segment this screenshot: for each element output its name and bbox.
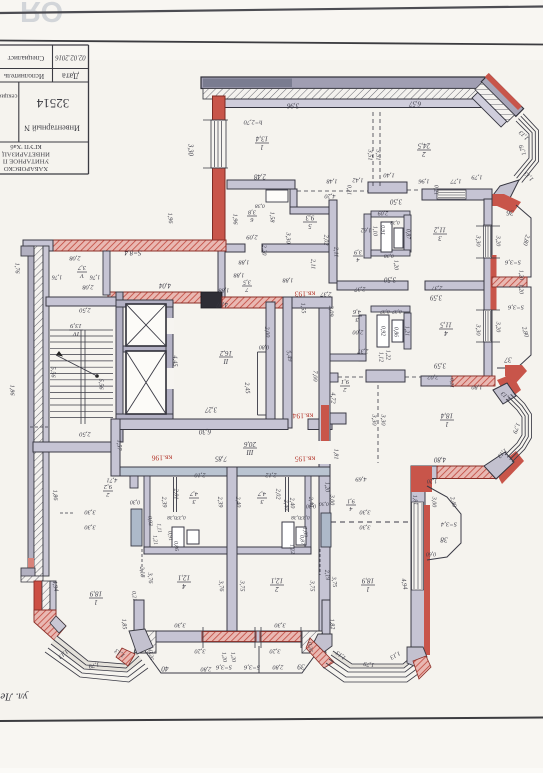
svg-text:ИНВЕТАРИЗАЦ: ИНВЕТАРИЗАЦ [2,150,50,157]
svg-text:1,10: 1,10 [372,226,378,236]
svg-text:Исполнитель: Исполнитель [3,72,44,80]
svg-text:1,81: 1,81 [333,449,340,460]
svg-text:4: 4 [356,256,359,263]
svg-text:1,79: 1,79 [471,174,483,181]
svg-text:24,5: 24,5 [417,142,430,150]
svg-text:37: 37 [504,355,513,363]
svg-text:4,7: 4,7 [257,490,266,497]
svg-text:3,30: 3,30 [285,231,292,244]
svg-text:12,1: 12,1 [178,574,190,582]
svg-text:2,18: 2,18 [138,566,146,578]
svg-text:0,86: 0,86 [172,541,179,551]
svg-text:3: 3 [355,316,359,323]
svg-text:1,96: 1,96 [232,214,239,226]
svg-text:3: 3 [260,498,264,505]
svg-text:3,30: 3,30 [84,509,97,516]
svg-text:3,50: 3,50 [389,197,402,204]
svg-text:0,38: 0,38 [255,203,265,209]
svg-text:2,11: 2,11 [310,259,317,269]
svg-text:6,30: 6,30 [198,427,210,434]
svg-text:1,80: 1,80 [471,384,483,391]
svg-text:4,45: 4,45 [172,355,179,366]
svg-text:3,30: 3,30 [359,509,372,516]
svg-text:2,37: 2,37 [431,285,443,292]
svg-text:0,30: 0,30 [130,499,140,505]
svg-text:2,12: 2,12 [265,472,277,479]
svg-text:3,27: 3,27 [204,405,217,412]
svg-text:13,9: 13,9 [70,322,82,329]
svg-text:1,20: 1,20 [229,652,236,663]
svg-text:18,9: 18,9 [361,577,374,585]
svg-text:4,80: 4,80 [433,455,445,462]
svg-text:2,37: 2,37 [354,286,366,293]
svg-text:2,10: 2,10 [194,472,206,479]
svg-text:3,75: 3,75 [309,580,316,592]
svg-text:0,37: 0,37 [392,308,402,314]
svg-text:32514: 32514 [36,96,69,111]
svg-text:IV: IV [72,330,80,337]
svg-text:2,40: 2,40 [307,496,315,507]
svg-text:2,50: 2,50 [79,430,91,437]
svg-text:1,96: 1,96 [418,178,430,185]
svg-text:2,08: 2,08 [69,255,81,262]
svg-text:2,00: 2,00 [263,326,271,338]
svg-text:III: III [246,448,255,455]
svg-text:11,5: 11,5 [440,321,452,329]
svg-text:1,42: 1,42 [352,177,364,184]
svg-text:0,21: 0,21 [130,591,137,601]
svg-text:4,69: 4,69 [355,476,367,483]
svg-text:1,48: 1,48 [326,178,338,185]
svg-text:2,00: 2,00 [352,329,364,336]
svg-text:Специалист: Специалист [7,54,44,62]
svg-text:1,21: 1,21 [151,535,158,545]
svg-text:0,91: 0,91 [166,531,173,541]
svg-text:секция: секция [0,93,17,100]
svg-text:1,22: 1,22 [385,350,391,360]
svg-text:2,50: 2,50 [79,306,91,313]
svg-text:S=8,4: S=8,4 [124,248,141,256]
svg-text:кв.195: кв.195 [295,454,316,463]
svg-text:3,20: 3,20 [495,235,501,247]
svg-text:1,85: 1,85 [120,618,128,629]
svg-text:2,45: 2,45 [243,382,251,394]
svg-text:3,30: 3,30 [186,143,193,156]
svg-text:13,4: 13,4 [255,135,268,143]
svg-text:0,92: 0,92 [380,326,386,336]
svg-text:3,30: 3,30 [359,524,372,531]
svg-text:1,20: 1,20 [427,478,437,484]
svg-text:0,80: 0,80 [259,344,269,350]
svg-text:S=3,6: S=3,6 [507,303,524,310]
svg-text:2,40: 2,40 [234,496,242,508]
svg-text:3,51: 3,51 [375,148,382,160]
svg-text:1,21: 1,21 [404,326,410,336]
svg-text:S=3,6: S=3,6 [215,663,232,670]
svg-text:5,56: 5,56 [98,379,105,391]
svg-text:5: 5 [308,222,312,230]
svg-text:16,2: 16,2 [219,349,231,356]
svg-text:18,9: 18,9 [89,590,102,598]
svg-text:кв.193: кв.193 [295,289,316,298]
svg-text:0,21: 0,21 [449,378,455,388]
svg-text:4,04: 4,04 [158,281,170,288]
svg-text:2,09: 2,09 [246,234,258,241]
svg-text:2,09: 2,09 [328,306,335,317]
svg-text:4: 4 [444,329,448,337]
svg-text:3,30: 3,30 [274,622,287,629]
svg-text:4,72: 4,72 [330,392,337,404]
svg-text:1,58: 1,58 [269,212,276,224]
svg-text:3,59: 3,59 [433,361,446,368]
svg-text:1,11: 1,11 [155,523,162,533]
svg-text:2,80: 2,80 [200,666,212,673]
svg-text:3,20: 3,20 [194,648,207,655]
svg-text:1: 1 [445,420,449,428]
svg-text:1,96: 1,96 [166,212,174,224]
svg-text:3,20: 3,20 [495,321,501,333]
svg-text:0,26: 0,26 [306,642,313,652]
svg-text:3,30: 3,30 [475,234,482,247]
svg-text:1,20: 1,20 [393,260,399,270]
svg-text:0,26: 0,26 [147,650,154,660]
svg-text:ул. Ле: ул. Ле [0,690,28,702]
svg-text:1,22: 1,22 [288,544,295,554]
svg-text:3,50: 3,50 [383,275,396,282]
svg-text:3,00: 3,00 [431,496,437,508]
svg-text:1: 1 [94,598,98,606]
svg-text:3,30: 3,30 [174,622,187,629]
svg-text:0,37: 0,37 [380,308,390,314]
svg-text:1,88: 1,88 [238,259,250,266]
svg-text:4: 4 [349,505,352,512]
svg-text:12,1: 12,1 [271,577,283,585]
svg-text:7,00: 7,00 [312,370,319,382]
svg-text:1,57: 1,57 [116,440,123,452]
svg-text:3,59: 3,59 [429,293,442,300]
svg-text:2,11: 2,11 [333,247,340,257]
svg-text:4,71: 4,71 [107,477,118,484]
svg-text:38: 38 [440,535,449,543]
svg-text:2,08: 2,08 [82,284,94,291]
svg-text:3,30: 3,30 [84,524,97,531]
svg-text:1,62: 1,62 [361,227,372,233]
svg-text:1,82: 1,82 [328,618,336,629]
svg-text:3,30: 3,30 [475,323,482,336]
svg-text:Инвентарный N: Инвентарный N [24,124,80,133]
svg-text:2,02: 2,02 [275,489,282,500]
svg-text:3,30: 3,30 [380,413,387,426]
svg-text:3,30: 3,30 [371,413,378,426]
svg-text:0,91: 0,91 [380,225,386,235]
svg-text:кв.196: кв.196 [152,453,173,462]
svg-text:4,7: 4,7 [189,490,198,497]
svg-text:7,85: 7,85 [214,454,226,461]
svg-text:1,40: 1,40 [383,172,395,179]
svg-text:3,7: 3,7 [77,264,87,271]
svg-text:0,38: 0,38 [384,253,394,259]
svg-text:9,3: 9,3 [305,214,314,222]
svg-text:2: 2 [275,585,279,593]
svg-text:0,21: 0,21 [346,185,352,195]
svg-text:1: 1 [366,585,370,593]
svg-text:УНИТАРНОЕ П: УНИТАРНОЕ П [3,158,50,165]
svg-text:2,02: 2,02 [427,374,439,381]
svg-text:5,56: 5,56 [50,367,57,379]
svg-text:1,81: 1,81 [411,495,418,506]
svg-text:0,87: 0,87 [405,229,411,240]
svg-text:0,86: 0,86 [393,327,399,337]
svg-text:2,09: 2,09 [378,210,389,216]
svg-text:0,37: 0,37 [300,514,310,520]
svg-text:0,93: 0,93 [146,516,153,526]
svg-text:1,77: 1,77 [450,178,462,185]
svg-text:1,79: 1,79 [363,660,375,668]
svg-text:2,80: 2,80 [272,664,284,671]
svg-text:3,76: 3,76 [146,571,154,584]
svg-text:3: 3 [438,234,443,242]
svg-text:1,20: 1,20 [518,284,524,294]
svg-text:1,20: 1,20 [518,270,524,280]
svg-text:S=3,6: S=3,6 [504,258,521,265]
svg-text:1,86: 1,86 [9,385,16,397]
svg-text:4: 4 [182,582,186,590]
svg-text:1,88: 1,88 [282,277,294,284]
svg-text:3,76: 3,76 [217,579,225,592]
svg-text:II: II [223,357,229,364]
svg-text:4,20: 4,20 [324,193,336,200]
svg-text:3,96: 3,96 [286,101,299,108]
svg-text:2,37: 2,37 [357,348,369,355]
svg-text:36: 36 [506,208,515,216]
svg-text:2,19: 2,19 [323,570,330,581]
svg-text:1: 1 [260,143,264,151]
svg-text:0,87: 0,87 [298,535,305,545]
svg-text:2,02: 2,02 [323,235,330,246]
svg-text:9,1: 9,1 [347,497,355,504]
svg-text:1,76: 1,76 [90,274,101,280]
svg-text:1,86: 1,86 [51,489,59,501]
svg-text:20,6: 20,6 [243,440,255,447]
svg-text:кв.194: кв.194 [293,411,314,420]
svg-text:1,12: 1,12 [378,352,384,362]
svg-text:02.02.2016: 02.02.2016 [55,53,86,60]
svg-text:2,01: 2,01 [173,489,180,500]
svg-text:11,2: 11,2 [434,226,446,234]
svg-text:2,48: 2,48 [253,172,265,179]
svg-text:h=2,70: h=2,70 [243,119,262,126]
svg-text:2,20: 2,20 [261,245,268,257]
svg-text:Дата: Дата [62,72,79,82]
svg-text:2,39: 2,39 [160,496,168,507]
svg-text:1,20: 1,20 [220,652,227,663]
svg-text:S=3,4: S=3,4 [440,520,457,527]
svg-text:1,76: 1,76 [14,263,21,275]
svg-text:4,07: 4,07 [215,300,227,307]
svg-text:3,9: 3,9 [354,248,363,255]
svg-text:3: 3 [192,498,196,505]
svg-text:3,75: 3,75 [239,580,246,592]
svg-text:0,37: 0,37 [176,514,186,520]
svg-text:1,55: 1,55 [299,302,307,313]
svg-text:0,38: 0,38 [167,514,177,520]
svg-text:1,20: 1,20 [324,482,330,492]
svg-text:2,39: 2,39 [216,496,224,507]
svg-text:39: 39 [297,662,306,670]
svg-text:S=3,6: S=3,6 [243,663,260,670]
svg-text:0,38: 0,38 [291,514,301,520]
svg-text:2,37: 2,37 [320,291,332,298]
svg-text:6,57: 6,57 [408,99,420,106]
svg-text:40: 40 [161,664,169,672]
svg-text:ХАБАРОВСКО: ХАБАРОВСКО [4,165,49,172]
svg-text:18,4: 18,4 [440,412,453,420]
svg-text:4,6: 4,6 [352,308,361,315]
svg-text:9,1: 9,1 [341,378,349,385]
svg-text:1,88: 1,88 [218,287,230,294]
svg-text:3,75: 3,75 [330,576,337,588]
svg-text:0,60: 0,60 [426,551,436,557]
svg-text:3,51: 3,51 [367,148,374,160]
svg-text:1,88: 1,88 [233,272,245,279]
svg-text:3,20: 3,20 [269,648,282,655]
svg-text:1,76: 1,76 [52,274,63,280]
svg-text:0,38: 0,38 [390,219,400,225]
svg-text:0,30: 0,30 [319,501,329,507]
svg-text:2,40: 2,40 [282,499,290,511]
svg-text:КГУП 'Хаб: КГУП 'Хаб [10,143,42,150]
svg-text:0,21: 0,21 [433,185,439,195]
svg-text:2: 2 [422,150,426,158]
